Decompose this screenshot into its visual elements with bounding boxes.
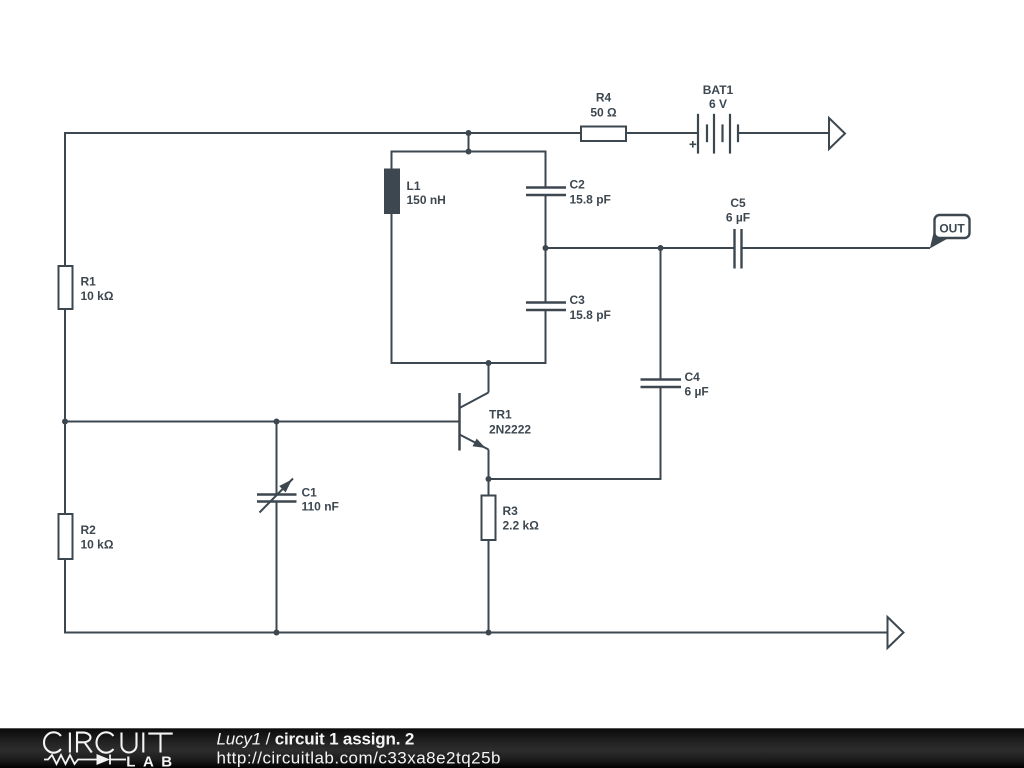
resistor R4 xyxy=(581,127,626,142)
wire tank top with L1 and C2 top leads xyxy=(392,152,546,188)
inductor L1 xyxy=(384,169,400,215)
wire C3 top lead xyxy=(545,248,547,303)
capacitor C3 xyxy=(526,303,566,311)
svg-text:http://circuitlab.com/c33xa8e2: http://circuitlab.com/c33xa8e2tq25b xyxy=(217,749,501,768)
resistor R2 xyxy=(59,514,73,559)
port arrow top xyxy=(829,118,845,149)
wire C4 bottom lead and emitter node xyxy=(489,387,661,479)
port arrow bottom xyxy=(888,617,904,648)
battery plus sign xyxy=(690,141,697,148)
wire tank bottom with L1 and C3 bottom leads xyxy=(392,214,546,363)
wire base xyxy=(65,421,460,423)
logo CIRCUIT xyxy=(44,732,173,752)
wire mid to C5 xyxy=(546,247,735,249)
wire C4 top lead xyxy=(660,248,662,380)
svg-text:LAB: LAB xyxy=(126,754,179,768)
capacitor C5 xyxy=(735,229,742,269)
wire collector lead xyxy=(488,363,490,393)
wire R3 top lead xyxy=(488,479,490,496)
OUT flag box xyxy=(935,215,970,238)
wire R4 to BAT1 xyxy=(626,132,698,134)
wire C1 bottom lead xyxy=(276,502,278,633)
wire C1 top lead xyxy=(276,422,278,495)
wire BAT1 to port xyxy=(738,132,829,134)
resistor R1 xyxy=(59,266,73,309)
wire riser node to tank xyxy=(468,133,470,152)
footer bar xyxy=(0,728,1024,768)
wire R3 bottom lead xyxy=(488,540,490,633)
wire C2 bottom lead xyxy=(545,195,547,248)
capacitor C2 xyxy=(526,188,566,196)
transistor TR1 xyxy=(460,393,489,480)
wire left rail lower and bottom rail xyxy=(65,559,888,633)
wire top rail xyxy=(65,133,581,266)
svg-text:Lucy1 / circuit 1 assign. 2: Lucy1 / circuit 1 assign. 2 xyxy=(217,730,415,749)
node junction dots xyxy=(62,130,664,636)
logo resistor-diode symbol xyxy=(44,755,126,765)
OUT flag tail xyxy=(930,233,950,249)
wire left rail middle xyxy=(64,309,66,514)
wire C5 to OUT xyxy=(742,247,931,249)
svg-text:OUT: OUT xyxy=(939,222,965,236)
variable capacitor C1 xyxy=(257,479,297,513)
capacitor C4 xyxy=(641,380,682,388)
battery BAT1 xyxy=(698,114,738,154)
resistor R3 xyxy=(482,496,496,541)
